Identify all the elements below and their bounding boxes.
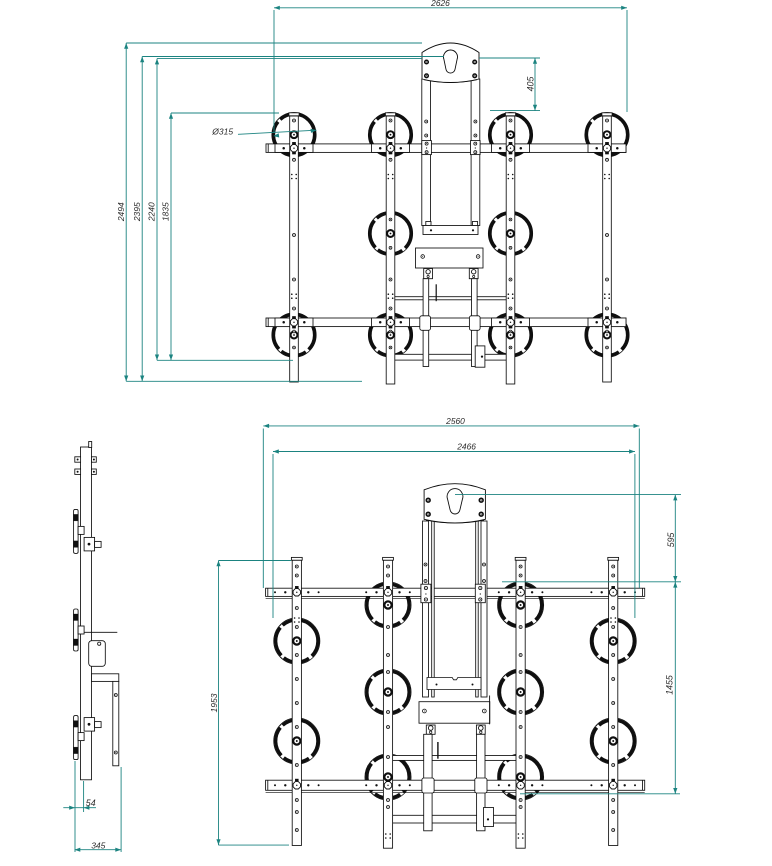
svg-text:595: 595 bbox=[666, 532, 676, 547]
svg-text:2395: 2395 bbox=[132, 202, 142, 222]
svg-text:1455: 1455 bbox=[665, 675, 675, 695]
svg-text:2466: 2466 bbox=[456, 441, 476, 451]
svg-text:54: 54 bbox=[86, 798, 96, 808]
svg-text:2560: 2560 bbox=[445, 416, 465, 426]
svg-text:Ø315: Ø315 bbox=[211, 126, 233, 136]
svg-text:2240: 2240 bbox=[147, 202, 157, 222]
svg-text:1835: 1835 bbox=[161, 202, 171, 221]
svg-text:2626: 2626 bbox=[430, 0, 450, 8]
svg-text:345: 345 bbox=[91, 840, 105, 850]
svg-text:405: 405 bbox=[526, 77, 536, 92]
svg-text:1953: 1953 bbox=[209, 693, 219, 712]
svg-text:2494: 2494 bbox=[116, 202, 126, 222]
